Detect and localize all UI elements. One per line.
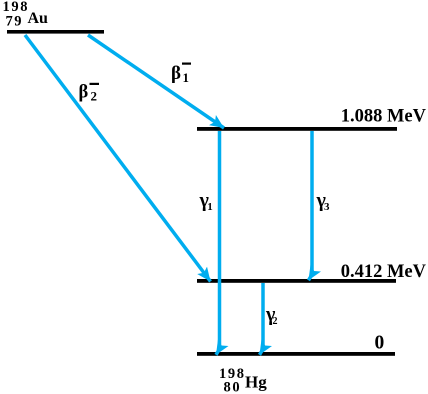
wire beta-2 decay arrow [25,35,211,282]
svg-text:Hg: Hg [245,373,267,392]
label 198/80 Hg nuclide [219,366,267,394]
svg-text:β: β [171,63,181,84]
label beta-2 [79,83,100,104]
svg-text:0.412 MeV: 0.412 MeV [341,262,427,282]
svg-text:80: 80 [224,380,242,394]
svg-text:79: 79 [6,14,24,30]
svg-text:1.088 MeV: 1.088 MeV [341,106,427,126]
node 0.412 MeV level line [197,279,396,283]
node Au-198 parent level line [7,30,104,34]
label 198/79 Au nuclide [3,0,49,30]
svg-text:1: 1 [183,70,190,85]
node ground state 0 level line [197,352,395,356]
svg-text:2: 2 [91,89,98,104]
wire gamma-3 arrow (1.088 MeV to 0.412 MeV) [309,131,313,280]
label gamma-3 [316,190,331,213]
svg-text:3: 3 [324,201,330,213]
node 1.088 MeV level line [197,127,397,131]
label beta-1 [171,63,191,86]
label gamma-1 [199,190,213,213]
wire gamma-1 arrow (1.088 MeV to 0) [216,131,220,355]
wire beta-1 decay arrow [88,35,224,128]
svg-text:0: 0 [375,333,385,354]
svg-text:β: β [79,83,89,103]
svg-text:Au: Au [28,10,49,27]
wire gamma-2 arrow (0.412 MeV to 0) [260,283,264,355]
svg-text:1: 1 [207,201,213,213]
label gamma-2 [265,304,278,327]
svg-text:2: 2 [273,316,278,327]
